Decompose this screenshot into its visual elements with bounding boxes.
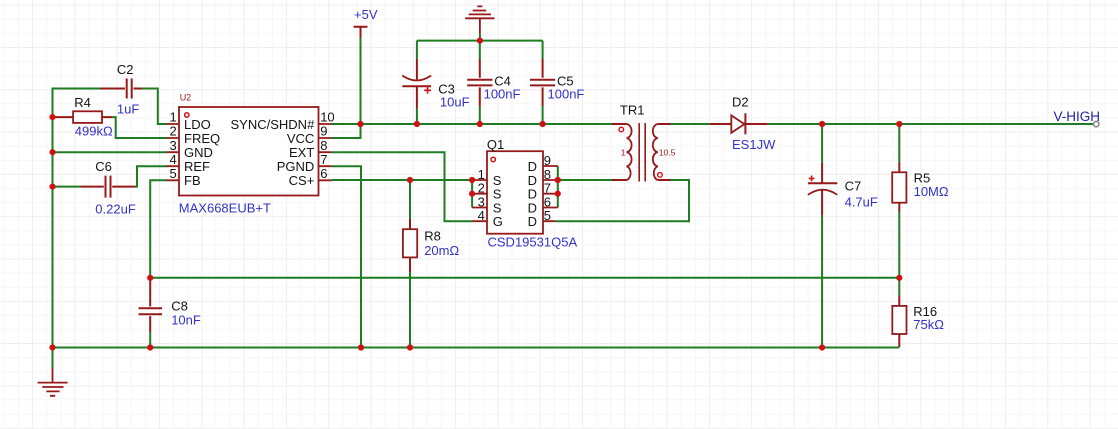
svg-text:10.5: 10.5	[659, 147, 676, 157]
svg-text:2: 2	[169, 124, 176, 139]
wire C2 to LDO pin1	[142, 89, 167, 125]
svg-text:4: 4	[478, 208, 485, 223]
wire GND net: C2 row left segment	[52, 88, 101, 90]
pin names U2	[184, 117, 220, 188]
svg-text:10MΩ: 10MΩ	[914, 184, 949, 199]
wire C3 bottom to rail	[416, 109, 418, 124]
capacitor C6 0.22uF	[80, 159, 135, 217]
pin numbers Q1 right 9-5	[544, 153, 551, 223]
svg-text:CS+: CS+	[289, 173, 315, 188]
diode D2 ES1JW	[710, 94, 776, 152]
resistor R5 10M	[892, 163, 949, 213]
node V-HIGH	[1054, 109, 1101, 127]
transistor Q1 CSD19531Q5A	[472, 137, 577, 250]
wire GND net: bottom rail	[53, 347, 900, 349]
svg-text:100nF: 100nF	[484, 86, 521, 101]
svg-text:REF: REF	[184, 159, 210, 174]
svg-text:SYNC/SHDN#: SYNC/SHDN#	[231, 117, 316, 132]
junction C8 bottom	[147, 344, 153, 350]
svg-text:1uF: 1uF	[117, 102, 139, 117]
wire R5 bottom to FB node	[898, 212, 900, 278]
wire C6 to REF pin4	[135, 166, 167, 186]
wire PGND pin7 to bottom rail	[332, 166, 362, 347]
svg-text:CSD19531Q5A: CSD19531Q5A	[488, 235, 578, 250]
svg-text:Q1: Q1	[487, 137, 504, 152]
junction R5/R16/FB row	[896, 275, 902, 281]
capacitor C5 100nF	[530, 59, 584, 106]
pin names Q1	[493, 173, 503, 229]
svg-text:3: 3	[169, 138, 176, 153]
junction R4/left rail	[49, 114, 55, 120]
wire TR1 secondary top to D2	[670, 123, 709, 125]
svg-text:10uF: 10uF	[440, 94, 470, 109]
wire R8 top lead drop	[409, 180, 411, 219]
capacitor C2 1uF	[100, 62, 142, 117]
wire D2 cathode to V-HIGH	[768, 123, 1096, 125]
capacitor C4 100nF	[467, 59, 520, 106]
capacitor C8 10nF	[139, 281, 201, 333]
capacitor C3 10uF polarized	[402, 59, 469, 110]
junction Q1 pin8	[555, 177, 561, 183]
svg-text:0.22uF: 0.22uF	[95, 202, 136, 217]
junction C7 bottom/rail	[819, 344, 825, 350]
junction +5V/pin10/pin9	[357, 121, 363, 127]
svg-text:U2: U2	[180, 93, 192, 103]
svg-text:1: 1	[169, 110, 176, 125]
svg-text:FREQ: FREQ	[184, 131, 220, 146]
svg-text:G: G	[493, 214, 503, 229]
svg-text:TR1: TR1	[620, 102, 645, 117]
svg-text:D2: D2	[732, 94, 749, 109]
svg-text:10nF: 10nF	[171, 313, 201, 328]
pin numbers Q1 left 1-4	[478, 167, 485, 223]
wire earth stem green part	[479, 34, 481, 41]
junction Q1 pin7	[555, 191, 561, 197]
svg-text:C7: C7	[845, 178, 862, 193]
svg-text:5: 5	[169, 166, 176, 181]
svg-text:75kΩ: 75kΩ	[913, 317, 944, 332]
wire GND net: left rail	[52, 88, 54, 348]
svg-text:PGND: PGND	[277, 159, 315, 174]
svg-text:FB: FB	[184, 173, 201, 188]
wire C7 bottom to rail	[821, 215, 823, 347]
svg-text:6: 6	[320, 166, 327, 181]
svg-text:10: 10	[320, 110, 334, 125]
resistor R4 499k	[56, 95, 113, 139]
wire top ground rail	[417, 40, 543, 42]
transformer TR1	[612, 102, 676, 181]
wire CS+ pin6 to Q1 source	[332, 179, 473, 181]
wire C5 bottom to rail	[542, 106, 544, 124]
junction R8 bottom/rail	[407, 344, 413, 350]
svg-text:4.7uF: 4.7uF	[845, 194, 878, 209]
junction C3 bottom rail	[414, 121, 420, 127]
wire GND net: stem to bottom earth	[52, 348, 54, 369]
junction R5 top/V-HIGH rail	[896, 121, 902, 127]
svg-text:499kΩ: 499kΩ	[75, 124, 113, 139]
ground earth (bottom left)	[38, 368, 68, 396]
wire C8 bottom green segment	[149, 332, 151, 348]
power +5V supply	[354, 7, 378, 38]
resistor R8 20m	[403, 219, 460, 272]
junction C5 bottom rail	[540, 121, 546, 127]
svg-text:5: 5	[544, 208, 551, 223]
wire GND net: pin3 GND row	[53, 151, 168, 153]
wire pin10 SYNC/SHDN# to +5V	[332, 123, 361, 125]
svg-text:4: 4	[169, 152, 176, 167]
wire +5V drop	[360, 37, 362, 124]
wire EXT pin8 to Q1 gate	[332, 152, 473, 221]
junction Q1 pin2	[469, 191, 475, 197]
wire C5 top drop	[542, 41, 544, 59]
wire FB pin5 to divider node	[150, 180, 167, 277]
svg-text:20mΩ: 20mΩ	[424, 243, 459, 258]
wire R16 top lead	[898, 278, 900, 296]
pin numbers U2 right 10-6	[320, 110, 334, 181]
wire +5V rail to TR1	[361, 123, 613, 125]
wire Q1 source bracket pins 1-3	[471, 180, 473, 208]
svg-text:1: 1	[621, 148, 626, 158]
svg-text:100nF: 100nF	[548, 86, 585, 101]
wire C4 bottom to rail	[479, 106, 481, 124]
wire TR1 secondary return to Q1 pin5	[556, 180, 689, 221]
junction left rail/bottom rail/earth	[49, 344, 55, 350]
svg-text:9: 9	[320, 124, 327, 139]
svg-text:V-HIGH: V-HIGH	[1054, 109, 1101, 124]
svg-text:7: 7	[320, 152, 327, 167]
junction GND row/left rail	[49, 149, 55, 155]
svg-text:ES1JW: ES1JW	[732, 137, 776, 152]
svg-text:7: 7	[544, 181, 551, 196]
svg-text:9: 9	[544, 153, 551, 168]
junction C4 bottom rail	[477, 121, 483, 127]
wire R4 to FREQ pin2	[112, 117, 167, 138]
svg-text:D: D	[528, 187, 537, 202]
svg-text:MAX668EUB+T: MAX668EUB+T	[179, 201, 271, 216]
svg-text:C8: C8	[171, 299, 188, 314]
junction earth top rail	[477, 38, 483, 44]
junction C6/left rail	[49, 184, 55, 190]
resistor R16 75k	[892, 296, 944, 347]
svg-text:LDO: LDO	[184, 117, 211, 132]
op-amp/controller IC U2 MAX668EUB+T	[167, 93, 335, 216]
pin numbers U2 left 1-5	[169, 110, 176, 181]
wire pin9 VCC riser	[332, 123, 361, 138]
svg-text:D: D	[528, 159, 537, 174]
svg-text:C2: C2	[117, 62, 134, 77]
svg-text:8: 8	[320, 138, 327, 153]
wire C7 top drop	[821, 124, 823, 163]
junction Q1 pin1	[469, 177, 475, 183]
svg-text:D: D	[528, 214, 537, 229]
junction PGND/bottom rail	[358, 344, 364, 350]
svg-text:2: 2	[478, 181, 485, 196]
ground earth (top, at C4)	[465, 6, 494, 33]
svg-text:EXT: EXT	[289, 145, 314, 160]
wire C4 top drop	[479, 41, 481, 59]
wire FB node row to R5/R16	[150, 277, 899, 279]
wire Q1 drain bracket pins 9-6	[557, 166, 559, 208]
svg-text:S: S	[493, 187, 502, 202]
svg-text:R8: R8	[424, 229, 441, 244]
svg-text:+5V: +5V	[354, 7, 378, 22]
wire GND net: C6 row left segment	[53, 186, 81, 188]
junction CS+/R8 top	[407, 177, 413, 183]
junction D2/C7	[819, 121, 825, 127]
capacitor C7 4.7uF polarized	[808, 163, 878, 215]
wire R5 top lead	[898, 124, 900, 163]
svg-text:VCC: VCC	[287, 131, 314, 146]
junction FB node	[147, 275, 153, 281]
wire R8 bottom to rail	[409, 272, 411, 348]
svg-text:GND: GND	[184, 145, 213, 160]
wire Q1 drain to TR1 primary bottom	[558, 179, 612, 181]
svg-text:R4: R4	[74, 95, 91, 110]
wire C3 top drop	[416, 41, 418, 59]
svg-text:C6: C6	[95, 159, 112, 174]
